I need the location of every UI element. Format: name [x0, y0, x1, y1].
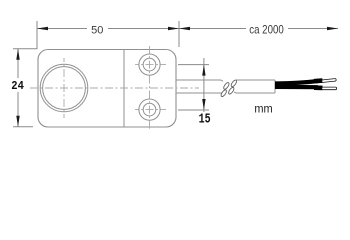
holes vertical centerline [149, 46, 151, 130]
dim 15 top arrowhead [202, 65, 205, 76]
cable break squiggle right [227, 78, 238, 95]
bottom hole horizontal centerline [135, 109, 166, 111]
dim 15 bottom arrowhead [202, 99, 205, 110]
dim 50 left arrowhead [37, 27, 48, 30]
sensing face outer circle [40, 64, 88, 112]
dim ca2000 line left part [179, 28, 246, 30]
dim 15 top extension line [178, 64, 209, 66]
svg-text:50: 50 [91, 24, 103, 36]
dim 15 bottom extension line [178, 109, 209, 111]
mounting hole top outer [139, 54, 160, 75]
mounting hole top inner [143, 58, 156, 71]
body divider line [123, 50, 125, 128]
dim 50 line left part [37, 28, 87, 30]
wire lower [275, 85, 318, 89]
sensor body outline [38, 50, 176, 128]
dim 50 right arrowhead [168, 27, 179, 30]
dim 24 bottom arrowhead [16, 116, 19, 127]
svg-text:24: 24 [11, 79, 24, 93]
dim 50 / ca2000 shared extension line [178, 21, 180, 47]
wire upper stripped end [322, 79, 337, 83]
main horizontal centerline [28, 87, 199, 89]
mounting hole bottom inner [143, 103, 156, 116]
dim 24 top arrowhead [16, 49, 19, 60]
svg-text:mm: mm [254, 102, 272, 116]
dim 24 bottom extension line [13, 126, 33, 128]
dim 50 left extension line [36, 21, 38, 49]
dim 24 line bottom part [17, 92, 19, 127]
dim 24 line top part [17, 49, 19, 78]
cable bottom edge left segment [176, 92, 222, 94]
wire upper insulation nub [314, 78, 323, 83]
cable top edge left segment [176, 80, 223, 81]
sensing face inner circle [43, 67, 86, 110]
top hole horizontal centerline [135, 64, 166, 66]
cable top edge right segment [236, 79, 275, 81]
cable end cap [274, 80, 276, 93]
svg-text:15: 15 [199, 112, 211, 127]
wire lower stripped end [322, 87, 337, 90]
dim ca2000 right arrowhead [327, 27, 338, 30]
svg-text:ca 2000: ca 2000 [249, 22, 284, 36]
dim 50 line right part [108, 28, 179, 30]
cable break squiggle left [220, 81, 231, 98]
mounting hole bottom outer [139, 99, 160, 120]
big circle vertical centerline [63, 58, 65, 118]
dim ca2000 line right part [288, 28, 338, 30]
cable bottom edge right segment [234, 92, 275, 93]
dim 15 line [203, 58, 205, 112]
wire lower insulation nub [314, 85, 323, 90]
dim ca2000 left arrowhead [179, 27, 190, 30]
wire upper [275, 81, 318, 84]
dim 24 top extension line [13, 48, 38, 50]
